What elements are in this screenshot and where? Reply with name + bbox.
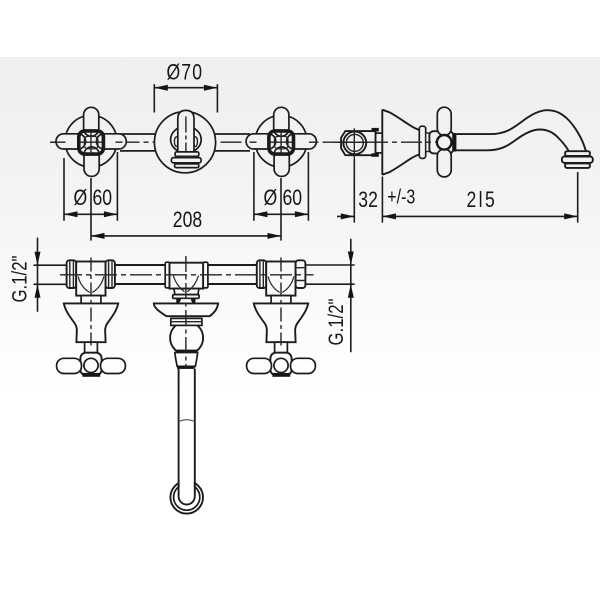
node: 208 arrow left (91, 233, 105, 239)
node: bonnet ring band (426, 133, 430, 152)
node: 32 arrow pointing right (341, 213, 355, 219)
node: right handle hub outer ring (thick) (269, 131, 294, 154)
node: right valve tee body (266, 262, 295, 296)
wire: center spout vertical centerline (dash-dot) (185, 256, 187, 368)
node: dark band under taper (black) (177, 366, 195, 369)
node: right valve outer union nut (296, 260, 306, 288)
node: left handle hub circle (bottom view) (84, 358, 98, 372)
node: aerator bar 1 (front view) (175, 152, 199, 156)
node: thread relief tick top (black) (372, 128, 379, 131)
node: aerator bar 2 wide (front view) (171, 158, 201, 163)
wire: left valve vertical centerline (dash-dot) (90, 258, 92, 346)
wire: small cross tick on centerline under tube (180, 156, 194, 158)
wire: supply pipe top line (front view) (120, 133, 250, 135)
wire: right G12 vertical dimension line (350, 239, 352, 352)
node: spout horn inner accent right (194, 137, 198, 147)
node: left valve neck (81, 296, 101, 304)
node: center tee left flange (165, 262, 169, 288)
wire: D60 right extension line B (307, 152, 309, 221)
svg-text:60: 60 (93, 186, 113, 210)
node: bell lip collar (419, 126, 425, 158)
svg-text:Ø: Ø (74, 186, 88, 210)
node: wall union hex nut body (side view) (341, 131, 375, 155)
wire: D60 left dimension line (64, 213, 117, 215)
svg-text:2l5: 2l5 (467, 188, 498, 212)
node: spout joint bar (black) (453, 133, 457, 151)
node: left handle hub outer ring (thick) (79, 131, 104, 154)
wire: 32 dimension tail line (337, 215, 354, 217)
node: right handle right lobe (287, 134, 317, 149)
wire: bell bottom contour (382, 155, 419, 175)
node: escutcheon bell body fill (side view) (382, 110, 421, 175)
wire: centerline tick over right handle left lobe (250, 141, 257, 143)
svg-text:60: 60 (283, 186, 303, 210)
wire: side dim extension line at hex nut center (353, 160, 355, 223)
node: right handle left lobe (246, 134, 276, 149)
node: right valve inner union nut (257, 260, 266, 288)
wire: left G12 extension line top (34, 264, 67, 266)
node: center escutcheon circle (front view, D70) (154, 112, 215, 173)
node: left handle rosette circle (front view, D60) (65, 115, 117, 167)
node: escutcheon wall backplate line (381, 110, 383, 175)
wire: D70 dimension line (154, 87, 217, 89)
node: spout tube seen end-on (front view) (178, 110, 194, 151)
node: handle top lobe (side view) (437, 107, 451, 135)
wire: side view centerline overlay (dash-dot) (333, 141, 436, 143)
wire: left inner nut facet lines (109, 261, 112, 287)
wire: left outer nut facet lines (70, 261, 74, 287)
node: spout ball (bottom view) (170, 321, 203, 354)
wire: right outer nut facet lines (horizontal) (297, 268, 305, 281)
wire: bottom view horizontal centerline (dash-dot, on top) (60, 274, 314, 276)
node: aerator ring 3 (side view) (565, 163, 590, 168)
wire: spout bottom contour (456, 130, 568, 152)
wire: 208 extension line left (90, 178, 92, 241)
svg-text:Ø: Ø (264, 186, 278, 210)
wire: D60 left extension line A (63, 158, 65, 221)
node: 215 arrow pointing right (564, 213, 578, 219)
svg-text:G.1/2": G.1/2" (325, 298, 348, 345)
node: right G12 arrow down (348, 252, 354, 266)
svg-text:32: 32 (358, 188, 378, 212)
wire: hex nut crosshair horizontal (337, 141, 369, 143)
node: left handle top lobe (84, 107, 99, 136)
node: right handle hub inner ring (274, 136, 288, 148)
node: aerator bar 3 (front view) (175, 164, 199, 168)
node: right handle left wing (247, 358, 272, 373)
wire: pipe bottom line segment between left valve and tee (114, 283, 165, 285)
node: D60 right arrow left (254, 211, 268, 217)
wire: right inner nut facet lines (260, 261, 263, 287)
node: right G12 arrow up (348, 284, 354, 298)
wire: right G12 extension line bottom (306, 283, 355, 285)
wire: left hub crosshair horizontal (80, 141, 104, 143)
wire: D70 extension line right (216, 84, 218, 112)
node: left G12 arrow down (35, 252, 41, 266)
wire: centerline tick over right handle right lobe (309, 141, 317, 143)
wire: left G12 extension line bottom (34, 283, 67, 285)
wire: side dim extension line at spout end (577, 172, 579, 223)
wire: downspout tube right line (194, 369, 196, 497)
wire: left valve funnel arcs (78, 277, 104, 293)
wire: threaded pipe top line (side view) (376, 132, 383, 134)
wire: D60 right extension line A (253, 152, 255, 221)
node: left valve outer union nut (67, 260, 77, 288)
wire: D70 extension line left (153, 84, 155, 112)
node: hex nut outer circle (343, 132, 366, 155)
node: center block dark shoulder right (190, 298, 195, 303)
node: D60 left arrow right (104, 211, 118, 217)
node: left handle left lobe (56, 134, 86, 149)
node: D70 arrow right (204, 85, 218, 91)
node: handle bottom lobe (side view) (437, 149, 451, 177)
wire: right G12 extension line top (306, 264, 355, 266)
wire: tube waterline break arc (179, 420, 195, 422)
node: handle hub circle (side view) (437, 135, 452, 150)
wire: threaded pipe bottom line (side view) (376, 152, 383, 154)
node: hex nut inner circle (346, 134, 363, 151)
node: left valve handle skirt (64, 303, 118, 342)
wire: hex nut crosshair vertical (353, 128, 355, 159)
wire: left G12 vertical dimension line (37, 238, 39, 312)
wire: main horizontal centerline (front view, dash-dot) (51, 141, 437, 143)
node: right handle hub block (bottom view) (270, 353, 291, 376)
wire: right hub crosshair vertical (280, 131, 282, 155)
node: taper piece under ball (175, 353, 198, 367)
node: left handle hub block (bottom view) (80, 353, 101, 376)
wire: bell top contour (382, 110, 419, 130)
wire: left hub crosshair vertical (90, 131, 92, 155)
wire: pipe bottom line segment between tee and right valve (208, 283, 257, 285)
wire: right valve funnel arcs (268, 277, 294, 293)
node: spout horn inner accent left (174, 137, 178, 147)
node: right valve neck (271, 296, 291, 304)
node: right handle top lobe (274, 107, 289, 136)
wire: 215 dimension line (382, 215, 577, 217)
node: left G12 arrow up (35, 284, 41, 298)
node: right handle bottom lobe (274, 147, 289, 176)
wire: D60 left extension line B (116, 152, 118, 221)
node: D60 right arrow right (295, 211, 309, 217)
wire: right valve vertical centerline (dash-dot) (280, 258, 282, 346)
node: aerator ring 2 wide (side view) (562, 157, 593, 163)
wire: pipe top line segment between left valve and tee (114, 264, 165, 266)
node: center block dark shoulder left (177, 298, 182, 303)
node: left handle bottom lobe (84, 147, 99, 176)
node: right handle hub circle (bottom view) (274, 358, 288, 372)
svg-text:G.1/2": G.1/2" (9, 255, 32, 302)
node: right valve handle skirt (254, 303, 308, 342)
node: aerator ring 1 (side view) (565, 151, 590, 156)
node: left handle base plate (black) (82, 373, 100, 377)
node: thread relief tick bottom (black) (372, 153, 379, 157)
wire: right hub crosshair horizontal (270, 141, 294, 143)
node: collar band under dish (171, 318, 202, 325)
wire: supply pipe bottom line (front view) (120, 150, 250, 152)
node: 208 arrow right (268, 233, 282, 239)
node: center block below nut (177, 298, 195, 303)
node: D70 arrow left (154, 85, 168, 91)
node: right valve stem (275, 342, 288, 353)
svg-text:208: 208 (173, 208, 202, 232)
node: dark band under ball (black) (176, 350, 197, 353)
node: center tee lower trapezoid (174, 289, 199, 295)
wire: 208 dimension line (91, 235, 281, 237)
wire: side dim extension line at wall plate (381, 177, 383, 223)
wire: pipe top line segment between tee and right valve (208, 264, 257, 266)
node: left valve inner union nut (106, 260, 115, 288)
node: left handle hub inner ring (84, 136, 98, 148)
wire: 208 extension line right (280, 178, 282, 241)
node: spout horn bell ellipse inside escutcheon (171, 126, 202, 152)
node: left valve stem (85, 342, 98, 353)
node: center tee body (170, 263, 204, 289)
wire: spout top contour (456, 110, 585, 151)
node: left handle left wing (57, 358, 82, 373)
node: escutcheon dish (bottom view, D70) (154, 303, 218, 316)
node: D60 left arrow left (64, 211, 78, 217)
node: outlet end middle ring circle (174, 484, 200, 510)
node: left handle right lobe (97, 134, 127, 149)
node: tube white cover over rings (180, 478, 194, 495)
wire: vertical centerline in escutcheon (dash-dot) (185, 117, 187, 161)
wire: center tee funnel arcs (173, 276, 198, 292)
node: center hex nut bar (173, 295, 199, 299)
svg-text:+/-3: +/-3 (387, 186, 415, 208)
node: 215 arrow pointing left (382, 213, 396, 219)
node: left valve tee body (76, 262, 105, 296)
node: left handle right wing (101, 358, 126, 373)
node: outlet end outer ring circle (170, 481, 203, 514)
wire: centerline tick over left handle right lobe (116, 141, 123, 143)
node: center tee right flange (203, 262, 208, 288)
svg-text:Ø70: Ø70 (167, 61, 204, 85)
wire: collar mid line (171, 321, 201, 323)
wire: downspout tube left line (178, 369, 180, 497)
node: right handle base plate (black) (272, 373, 290, 377)
node: right handle right wing (291, 358, 316, 373)
node: right handle rosette circle (front view, D60) (255, 115, 307, 167)
node: valve body (side view) (429, 131, 453, 153)
wire: centerline tick over left handle left lobe tip (50, 141, 66, 143)
wire: downspout tube bottom U arc (179, 496, 195, 504)
wire: D60 right dimension line (254, 213, 309, 215)
